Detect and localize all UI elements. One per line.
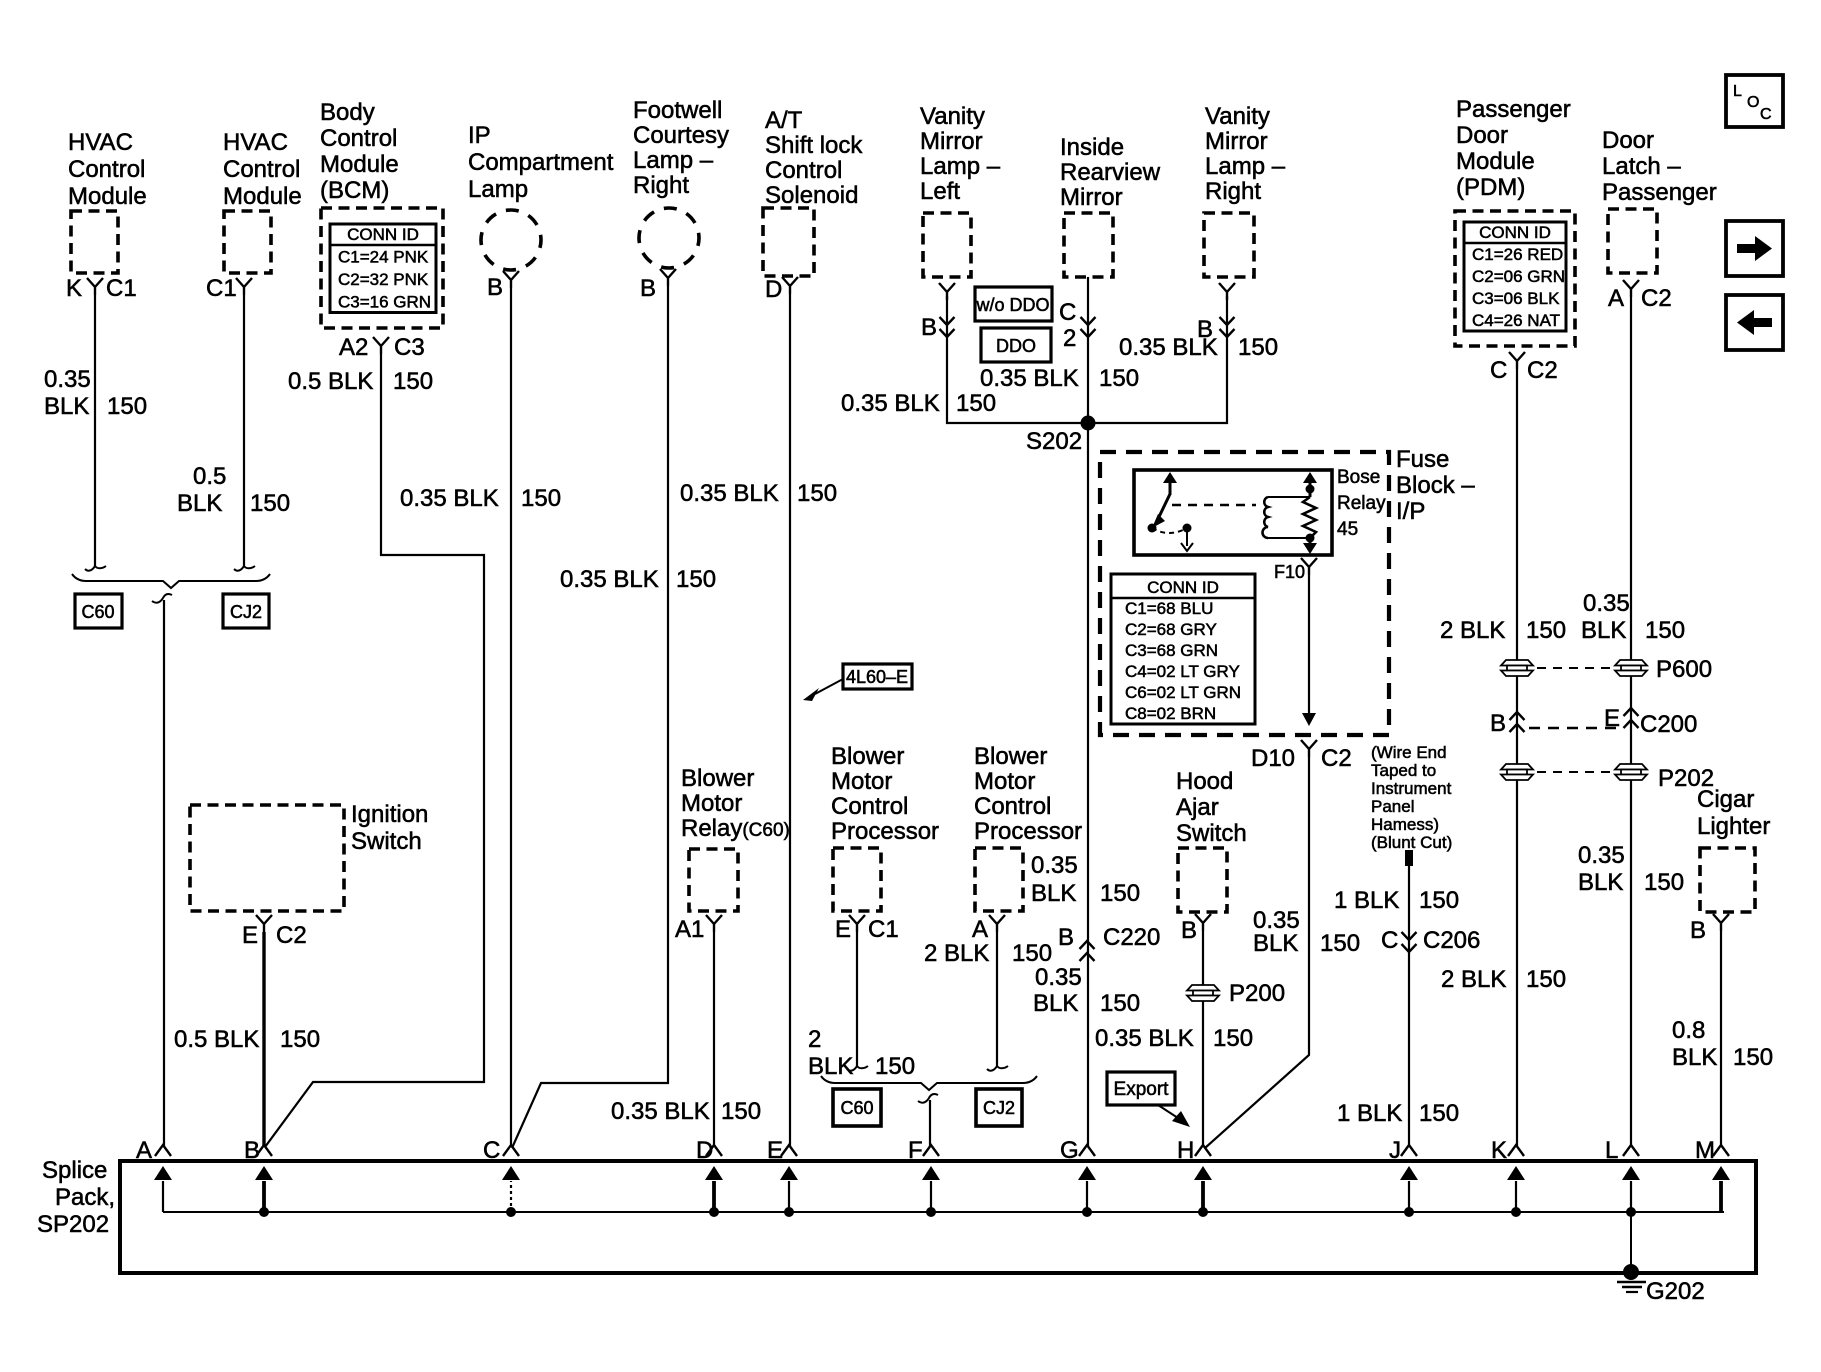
Bose Relay 45 label: [1337, 467, 1386, 540]
svg-text:BLK: BLK: [1031, 880, 1076, 907]
svg-text:Ajar: Ajar: [1176, 794, 1219, 821]
wire 0.35 BLK 150 from Footwell Courtesy Lamp to splice node C: [512, 286, 668, 1148]
svg-text:150: 150: [1419, 1100, 1459, 1127]
svg-text:Mirror: Mirror: [920, 128, 983, 155]
svg-text:Lamp –: Lamp –: [633, 147, 714, 174]
svg-text:C: C: [1760, 106, 1772, 123]
wire from bracket to splice node F: [929, 1100, 931, 1146]
option tag w/o DDO: [975, 287, 1052, 321]
svg-text:A: A: [972, 916, 988, 943]
pin A of Blower Motor Control Processor (second): [972, 915, 1005, 943]
svg-text:C2: C2: [276, 922, 307, 949]
svg-text:150: 150: [1645, 617, 1685, 644]
svg-text:Relay(C60): Relay(C60): [681, 815, 790, 842]
label 0.35 BLK 150 (HVAC left wire): [44, 366, 147, 420]
label 0.35 BLK 150 (blower relay wire): [611, 1098, 761, 1125]
Body Control Module (BCM) label: [320, 99, 399, 204]
Blower Motor Relay connector box: [689, 849, 738, 911]
label 0.35 BLK 150 (A/T solenoid wire): [680, 480, 837, 507]
wire from bracket to splice node A: [163, 600, 165, 1146]
svg-text:2 BLK: 2 BLK: [924, 940, 989, 967]
svg-text:0.5 BLK: 0.5 BLK: [288, 368, 373, 395]
wire 2 BLK 150 from processor (first) to bracket: [847, 932, 868, 1071]
svg-text:CONN ID: CONN ID: [1479, 223, 1551, 242]
labels 0.35 BLK 150 above and below C220: [1031, 852, 1140, 1017]
svg-text:C4=02 LT GRY: C4=02 LT GRY: [1125, 662, 1240, 681]
Door Latch - Passenger connector box: [1608, 209, 1657, 273]
wire 0.35 BLK 150 from Blower Motor Relay to splice node D: [713, 932, 715, 1146]
svg-text:O: O: [1747, 94, 1759, 111]
svg-text:C: C: [1059, 299, 1076, 326]
svg-text:BLK: BLK: [1033, 990, 1078, 1017]
Vanity Mirror Lamp - Right connector box: [1204, 213, 1254, 277]
svg-text:C2=68 GRY: C2=68 GRY: [1125, 620, 1217, 639]
Cigar Lighter label: [1697, 786, 1770, 840]
svg-text:B: B: [921, 314, 937, 341]
svg-text:Mirror: Mirror: [1205, 128, 1268, 155]
pin B of Cigar Lighter: [1690, 914, 1729, 944]
pin C C2 of PDM: [1490, 352, 1558, 384]
svg-text:C1=26 RED: C1=26 RED: [1472, 245, 1563, 264]
svg-text:150: 150: [875, 1053, 915, 1080]
wire 0.5 BLK 150 from BCM A2/C3 to splice node B: [265, 354, 484, 1147]
svg-text:C1: C1: [206, 275, 237, 302]
svg-text:Latch –: Latch –: [1602, 153, 1681, 180]
label 2 BLK 150 (PDM wire lower): [1441, 966, 1566, 993]
svg-text:C1: C1: [868, 916, 899, 943]
svg-text:150: 150: [280, 1026, 320, 1053]
svg-text:C3: C3: [394, 334, 425, 361]
label 0.5 BLK 150 (ignition wire): [174, 1026, 320, 1053]
svg-text:4L60–E: 4L60–E: [846, 667, 908, 687]
splice pack terminal J: [1389, 1137, 1418, 1212]
svg-text:J: J: [1389, 1137, 1401, 1164]
wire 0.5 BLK 150 from Ignition Switch to splice node B (heavy): [262, 932, 265, 1146]
svg-text:Ignition: Ignition: [351, 801, 428, 828]
svg-text:2 BLK: 2 BLK: [1440, 617, 1505, 644]
svg-text:Body: Body: [320, 99, 375, 126]
svg-text:BLK: BLK: [1253, 930, 1298, 957]
svg-text:A/T: A/T: [765, 107, 803, 134]
wire 0.35 BLK 150 from fuse block D10 to splice node H: [1205, 757, 1309, 1148]
svg-text:150: 150: [1526, 966, 1566, 993]
A/T Shift lock Control Solenoid connector box: [763, 208, 814, 276]
splice pack terminal A: [136, 1137, 172, 1212]
svg-text:C2: C2: [1641, 285, 1672, 312]
Vanity Mirror Lamp - Left connector box: [923, 213, 971, 277]
bracket joining processor wires to node F (C60 / CJ2): [821, 1076, 1037, 1103]
svg-text:(BCM): (BCM): [320, 177, 389, 204]
Cigar Lighter connector box: [1700, 848, 1755, 912]
Blower Motor Control Processor (first) connector box: [833, 848, 881, 911]
svg-text:G: G: [1060, 1137, 1079, 1164]
svg-text:CJ2: CJ2: [983, 1098, 1015, 1118]
svg-text:IP: IP: [468, 122, 491, 149]
wire-end note (taped to instrument panel harness): [1371, 743, 1452, 852]
Hood Ajar Switch label: [1176, 768, 1247, 847]
svg-text:2: 2: [1063, 325, 1076, 352]
svg-text:C2: C2: [1527, 357, 1558, 384]
svg-text:Control: Control: [831, 793, 908, 820]
Footwell Courtesy Lamp - Right label: [633, 97, 729, 199]
svg-text:Inside: Inside: [1060, 134, 1124, 161]
svg-text:Pack,: Pack,: [55, 1184, 115, 1211]
label 0.35 BLK 150 (footwell lamp wire): [560, 566, 716, 593]
svg-text:SP202: SP202: [37, 1211, 109, 1238]
svg-text:C60: C60: [840, 1098, 873, 1118]
svg-text:Block –: Block –: [1396, 472, 1475, 499]
wire 0.35 BLK 150 from IP Compartment Lamp to splice node C: [510, 288, 512, 1146]
option tag DDO: [981, 328, 1051, 362]
Fuse Block - I/P dashed enclosure: [1100, 452, 1389, 735]
svg-text:Vanity: Vanity: [920, 103, 985, 130]
connector C206 on blunt-cut wire: [1381, 927, 1480, 954]
svg-text:Module: Module: [1456, 148, 1535, 175]
Fuse Block - I/P label: [1396, 446, 1475, 525]
svg-text:I/P: I/P: [1396, 498, 1425, 525]
pin B of Hood Ajar Switch: [1181, 914, 1211, 944]
svg-text:45: 45: [1337, 519, 1358, 540]
svg-text:BLK: BLK: [1581, 617, 1626, 644]
HVAC Control Module (left) label: [68, 129, 147, 210]
svg-text:BLK: BLK: [1578, 869, 1623, 896]
Bose Relay 45 relay box with switch and coil: [1134, 470, 1332, 555]
splice pack terminal L: [1605, 1137, 1640, 1212]
splice S202: [1026, 416, 1096, 456]
Inside Rearview Mirror label: [1060, 134, 1161, 211]
svg-text:F10: F10: [1274, 562, 1305, 582]
svg-text:Right: Right: [633, 172, 689, 199]
wire 0.8 BLK 150 from Cigar Lighter to splice node M: [1720, 931, 1722, 1146]
svg-text:Export: Export: [1114, 1079, 1170, 1100]
svg-text:Hood: Hood: [1176, 768, 1233, 795]
svg-text:Relay: Relay: [1337, 493, 1386, 514]
svg-text:0.35 BLK: 0.35 BLK: [680, 480, 779, 507]
wire 2 BLK 150 from PDM to splice node K: [1516, 369, 1518, 1146]
svg-text:(Blunt Cut): (Blunt Cut): [1371, 833, 1452, 852]
pin F10 of fuse block relay: [1274, 558, 1317, 582]
wire 2 BLK 150 from processor (second) to bracket: [987, 932, 1008, 1071]
svg-text:H: H: [1177, 1137, 1194, 1164]
svg-text:Switch: Switch: [1176, 820, 1247, 847]
svg-text:C1: C1: [106, 275, 137, 302]
Blower Motor Relay label: [681, 765, 790, 842]
svg-text:Mirror: Mirror: [1060, 184, 1123, 211]
pin K C1 of HVAC Control Module (left): [66, 275, 137, 302]
label 2 BLK 150 (processor second wire): [924, 940, 1052, 967]
svg-text:Lamp –: Lamp –: [920, 153, 1001, 180]
svg-text:K: K: [66, 275, 82, 302]
pin A2 C3 of BCM: [339, 334, 425, 361]
svg-text:0.35: 0.35: [1031, 852, 1078, 879]
svg-text:150: 150: [797, 480, 837, 507]
svg-text:Lamp: Lamp: [468, 176, 528, 203]
connector tag C60 (right bracket): [833, 1089, 881, 1126]
label 0.35 BLK 150 (door latch wire lower): [1578, 842, 1684, 896]
svg-text:150: 150: [1012, 940, 1052, 967]
svg-text:M: M: [1695, 1137, 1715, 1164]
svg-text:Blower: Blower: [681, 765, 754, 792]
svg-text:CONN ID: CONN ID: [347, 225, 419, 244]
fuse block CONN ID table: [1111, 574, 1255, 724]
blunt cut wire end marker: [1405, 850, 1413, 866]
svg-text:S202: S202: [1026, 428, 1082, 455]
svg-text:0.35 BLK: 0.35 BLK: [400, 485, 499, 512]
svg-text:C220: C220: [1103, 924, 1160, 951]
svg-text:Processor: Processor: [831, 818, 939, 845]
svg-text:150: 150: [956, 390, 996, 417]
connector tag CJ2 (right bracket): [976, 1089, 1022, 1126]
svg-text:Blower: Blower: [831, 743, 904, 770]
svg-text:C206: C206: [1423, 927, 1480, 954]
svg-text:150: 150: [521, 485, 561, 512]
bracket joining HVAC wires to node A (C60 / CJ2): [72, 574, 270, 603]
svg-text:Bose: Bose: [1337, 467, 1380, 488]
wire from relay F10 to fuse block edge: [1302, 575, 1316, 726]
label 0.35 BLK 150 (hood ajar wire): [1095, 1025, 1253, 1052]
label 0.35 BLK 150 (rearview mirror wire): [980, 365, 1139, 392]
splice pack terminal M: [1695, 1137, 1730, 1212]
svg-text:0.35: 0.35: [44, 366, 91, 393]
Inside Rearview Mirror connector box: [1064, 213, 1113, 277]
svg-text:150: 150: [1099, 365, 1139, 392]
svg-text:C6=02 LT GRN: C6=02 LT GRN: [1125, 683, 1241, 702]
wire 1 BLK 150 from blunt cut end to splice node J: [1408, 866, 1410, 1146]
label 0.35 BLK 150 (vanity right wire): [1119, 334, 1278, 361]
svg-text:D10: D10: [1251, 745, 1295, 772]
svg-text:A: A: [1608, 285, 1624, 312]
connector C220 on rearview wire: [1058, 924, 1160, 961]
svg-text:HVAC: HVAC: [223, 129, 288, 156]
svg-text:BLK: BLK: [177, 490, 222, 517]
wire 0.35 BLK 150 from Hood Ajar Switch to splice node H: [1202, 931, 1204, 1146]
svg-text:C4=26 NAT: C4=26 NAT: [1472, 311, 1560, 330]
svg-text:0.35 BLK: 0.35 BLK: [611, 1098, 710, 1125]
label 1 BLK 150 (upper, blunt-cut wire): [1334, 887, 1459, 914]
svg-text:Solenoid: Solenoid: [765, 182, 858, 209]
back arrow icon: [1726, 295, 1783, 350]
Vanity Mirror Lamp - Left label: [920, 103, 1001, 205]
svg-text:CONN ID: CONN ID: [1147, 578, 1219, 597]
svg-text:Control: Control: [320, 125, 397, 152]
svg-text:L: L: [1605, 1137, 1618, 1164]
svg-text:150: 150: [1100, 990, 1140, 1017]
HVAC Control Module (second) connector box: [224, 211, 271, 273]
svg-text:Cigar: Cigar: [1697, 786, 1754, 813]
svg-text:Right: Right: [1205, 178, 1261, 205]
svg-text:K: K: [1491, 1137, 1507, 1164]
svg-text:C: C: [1490, 357, 1507, 384]
ground G202: [1617, 1212, 1705, 1305]
Passenger Door Module (PDM) connector box with CONN ID table: [1455, 211, 1575, 346]
wire 0.35 BLK 150 from Vanity Mirror Lamp Right to S202: [1090, 296, 1227, 423]
svg-text:150: 150: [1100, 880, 1140, 907]
svg-text:Module: Module: [223, 183, 302, 210]
svg-text:Motor: Motor: [831, 768, 892, 795]
svg-text:B: B: [1181, 917, 1197, 944]
svg-text:(Wire End: (Wire End: [1371, 743, 1447, 762]
svg-text:2 BLK: 2 BLK: [1441, 966, 1506, 993]
svg-text:Panel: Panel: [1371, 797, 1414, 816]
splice pack terminal K: [1491, 1137, 1525, 1212]
wire 0.35 BLK 150 from A/T shift lock solenoid to splice node E: [789, 294, 791, 1146]
svg-text:0.5 BLK: 0.5 BLK: [174, 1026, 259, 1053]
inline connector P200 on hood ajar wire: [1187, 980, 1285, 1007]
svg-text:Blower: Blower: [974, 743, 1047, 770]
Footwell Courtesy Lamp dashed circle: [639, 208, 699, 268]
svg-text:C2=32 PNK: C2=32 PNK: [338, 270, 429, 289]
svg-text:A2: A2: [339, 334, 368, 361]
label 0.8 BLK 150 (cigar lighter wire): [1672, 1017, 1773, 1071]
svg-text:Control: Control: [974, 793, 1051, 820]
svg-text:BLK: BLK: [808, 1053, 853, 1080]
svg-text:Module: Module: [320, 151, 399, 178]
svg-text:150: 150: [1644, 869, 1684, 896]
svg-text:Compartment: Compartment: [468, 149, 614, 176]
svg-text:Footwell: Footwell: [633, 97, 722, 124]
svg-text:C2: C2: [1321, 745, 1352, 772]
HVAC Control Module (left) connector box: [71, 211, 118, 273]
svg-text:Door: Door: [1602, 127, 1654, 154]
svg-text:(PDM): (PDM): [1456, 174, 1525, 201]
svg-text:150: 150: [676, 566, 716, 593]
svg-text:Control: Control: [765, 157, 842, 184]
svg-text:150: 150: [1213, 1025, 1253, 1052]
svg-text:Module: Module: [68, 183, 147, 210]
pin E C2 of Ignition Switch: [242, 915, 307, 949]
label 0.35 BLK 150 (door latch wire upper): [1581, 590, 1685, 644]
pin C 2 of Inside Rearview Mirror: [1059, 299, 1096, 352]
svg-text:0.35: 0.35: [1583, 590, 1630, 617]
Vanity Mirror Lamp - Right label: [1205, 103, 1286, 205]
LOC hyperlink icon: [1726, 75, 1783, 127]
svg-text:C3=16 GRN: C3=16 GRN: [338, 293, 431, 312]
wire 0.35 BLK 150 from Vanity Mirror Lamp Left to S202: [947, 296, 1086, 423]
svg-text:A: A: [136, 1137, 152, 1164]
svg-text:0.35: 0.35: [1035, 964, 1082, 991]
svg-text:B: B: [640, 275, 656, 302]
IP Compartment Lamp dashed circle: [481, 210, 541, 270]
wire 0.5 BLK 150 from HVAC Control Module C1 to splice bracket: [234, 295, 255, 571]
svg-text:C8=02 BRN: C8=02 BRN: [1125, 704, 1216, 723]
svg-text:0.5: 0.5: [193, 463, 226, 490]
svg-text:E: E: [242, 922, 258, 949]
splice pack terminal C: [483, 1137, 520, 1212]
pin B of Vanity Mirror Lamp - Right: [1197, 283, 1235, 343]
svg-text:C1=68 BLU: C1=68 BLU: [1125, 599, 1213, 618]
svg-text:G202: G202: [1646, 1278, 1705, 1305]
svg-text:Fuse: Fuse: [1396, 446, 1449, 473]
Hood Ajar Switch connector box: [1178, 848, 1227, 912]
Blower Motor Control Processor (second) label: [974, 743, 1082, 845]
pin A C2 of Door Latch - Passenger: [1608, 280, 1672, 312]
svg-text:Control: Control: [223, 156, 300, 183]
Ignition Switch connector box: [190, 805, 344, 911]
svg-text:0.35 BLK: 0.35 BLK: [1095, 1025, 1194, 1052]
IP Compartment Lamp label: [468, 122, 614, 203]
callout Export with arrow: [1107, 1072, 1190, 1127]
svg-text:C3=68 GRN: C3=68 GRN: [1125, 641, 1218, 660]
svg-text:CJ2: CJ2: [230, 602, 262, 622]
label 0.5 BLK 150 (HVAC second wire): [177, 463, 290, 517]
label 0.35 BLK 150 (vanity left wire): [841, 390, 996, 417]
svg-text:HVAC: HVAC: [68, 129, 133, 156]
svg-text:BLK: BLK: [44, 393, 89, 420]
Ignition Switch label: [351, 801, 428, 855]
HVAC Control Module (second) label: [223, 129, 302, 210]
Passenger Door Module (PDM) label: [1456, 96, 1571, 201]
svg-text:150: 150: [393, 368, 433, 395]
label 2 BLK 150 (PDM wire upper): [1440, 617, 1566, 644]
svg-text:Splice: Splice: [42, 1157, 107, 1184]
svg-text:Left: Left: [920, 178, 960, 205]
connector tag CJ2 (left bracket): [223, 594, 269, 628]
splice pack internal bus: [163, 1211, 1724, 1213]
svg-text:E: E: [835, 916, 851, 943]
Door Latch - Passenger label: [1602, 127, 1717, 206]
wire 0.35 BLK 150 from Inside Rearview Mirror through S202 to splice node G: [1087, 277, 1089, 1146]
svg-text:E: E: [767, 1137, 783, 1164]
label 2 BLK 150 (processor first wire): [808, 1026, 915, 1080]
label 0.35 BLK 150 (IP lamp wire): [400, 485, 561, 512]
pin C1 of HVAC Control Module (second): [206, 275, 252, 302]
svg-text:B: B: [1058, 924, 1074, 951]
svg-text:Rearview: Rearview: [1060, 159, 1161, 186]
svg-text:C: C: [1381, 927, 1398, 954]
splice pack terminal E: [767, 1137, 798, 1212]
svg-text:0.35 BLK: 0.35 BLK: [841, 390, 940, 417]
splice pack terminal D: [696, 1137, 723, 1212]
svg-text:Processor: Processor: [974, 818, 1082, 845]
svg-text:150: 150: [1419, 887, 1459, 914]
splice pack terminal F: [908, 1137, 940, 1212]
svg-text:F: F: [908, 1137, 923, 1164]
svg-text:Passenger: Passenger: [1456, 96, 1571, 123]
svg-text:C: C: [483, 1137, 500, 1164]
splice pack terminal B: [244, 1137, 273, 1212]
inline connector P202 (both wires): [1501, 764, 1714, 792]
svg-text:E: E: [1604, 705, 1620, 732]
Blower Motor Control Processor (first) label: [831, 743, 939, 845]
svg-text:1 BLK: 1 BLK: [1337, 1100, 1402, 1127]
svg-text:DDO: DDO: [996, 336, 1036, 356]
pin B of Vanity Mirror Lamp - Left: [921, 283, 955, 341]
svg-text:C3=06 BLK: C3=06 BLK: [1472, 289, 1560, 308]
callout 4L60-E with arrow to A/T wire: [803, 664, 912, 701]
svg-text:Motor: Motor: [681, 790, 742, 817]
splice pack terminal H: [1177, 1137, 1212, 1212]
pin D10 C2 below fuse block: [1251, 740, 1352, 772]
splice bus junction dots: [259, 1207, 1636, 1217]
svg-text:Taped to: Taped to: [1371, 761, 1436, 780]
pin A1 of Blower Motor Relay: [675, 915, 722, 943]
svg-text:C60: C60: [81, 602, 114, 622]
svg-text:Instrument: Instrument: [1371, 779, 1452, 798]
Blower Motor Control Processor (second) connector box: [975, 848, 1023, 911]
svg-text:P200: P200: [1229, 980, 1285, 1007]
svg-text:0.35 BLK: 0.35 BLK: [1119, 334, 1218, 361]
svg-text:150: 150: [1320, 930, 1360, 957]
inline connector P600 (both wires): [1501, 656, 1712, 683]
label 0.5 BLK 150 (BCM wire): [288, 368, 433, 395]
svg-text:w/o DDO: w/o DDO: [975, 295, 1049, 315]
svg-text:B: B: [1490, 710, 1506, 737]
Body Control Module (BCM) connector box with CONN ID table: [321, 208, 443, 328]
svg-text:150: 150: [1733, 1044, 1773, 1071]
svg-text:Lighter: Lighter: [1697, 813, 1770, 840]
pin D of A/T Shift lock Control Solenoid: [765, 276, 798, 303]
svg-text:Courtesy: Courtesy: [633, 122, 729, 149]
